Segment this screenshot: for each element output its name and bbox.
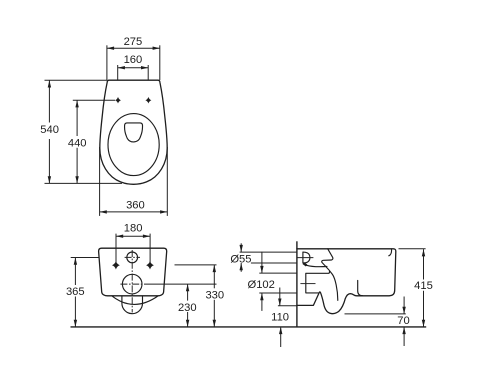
svg-text:440: 440 — [68, 137, 87, 149]
svg-text:230: 230 — [178, 302, 197, 314]
svg-text:275: 275 — [124, 36, 143, 48]
svg-text:Ø102: Ø102 — [248, 279, 275, 291]
svg-text:330: 330 — [205, 290, 224, 302]
svg-text:415: 415 — [414, 280, 433, 292]
svg-text:160: 160 — [124, 54, 143, 66]
svg-text:365: 365 — [66, 286, 85, 298]
svg-text:Ø55: Ø55 — [230, 254, 251, 266]
svg-text:180: 180 — [124, 223, 143, 235]
svg-text:110: 110 — [271, 311, 289, 323]
svg-text:360: 360 — [126, 199, 145, 211]
svg-text:70: 70 — [397, 315, 409, 327]
svg-text:540: 540 — [40, 124, 59, 136]
